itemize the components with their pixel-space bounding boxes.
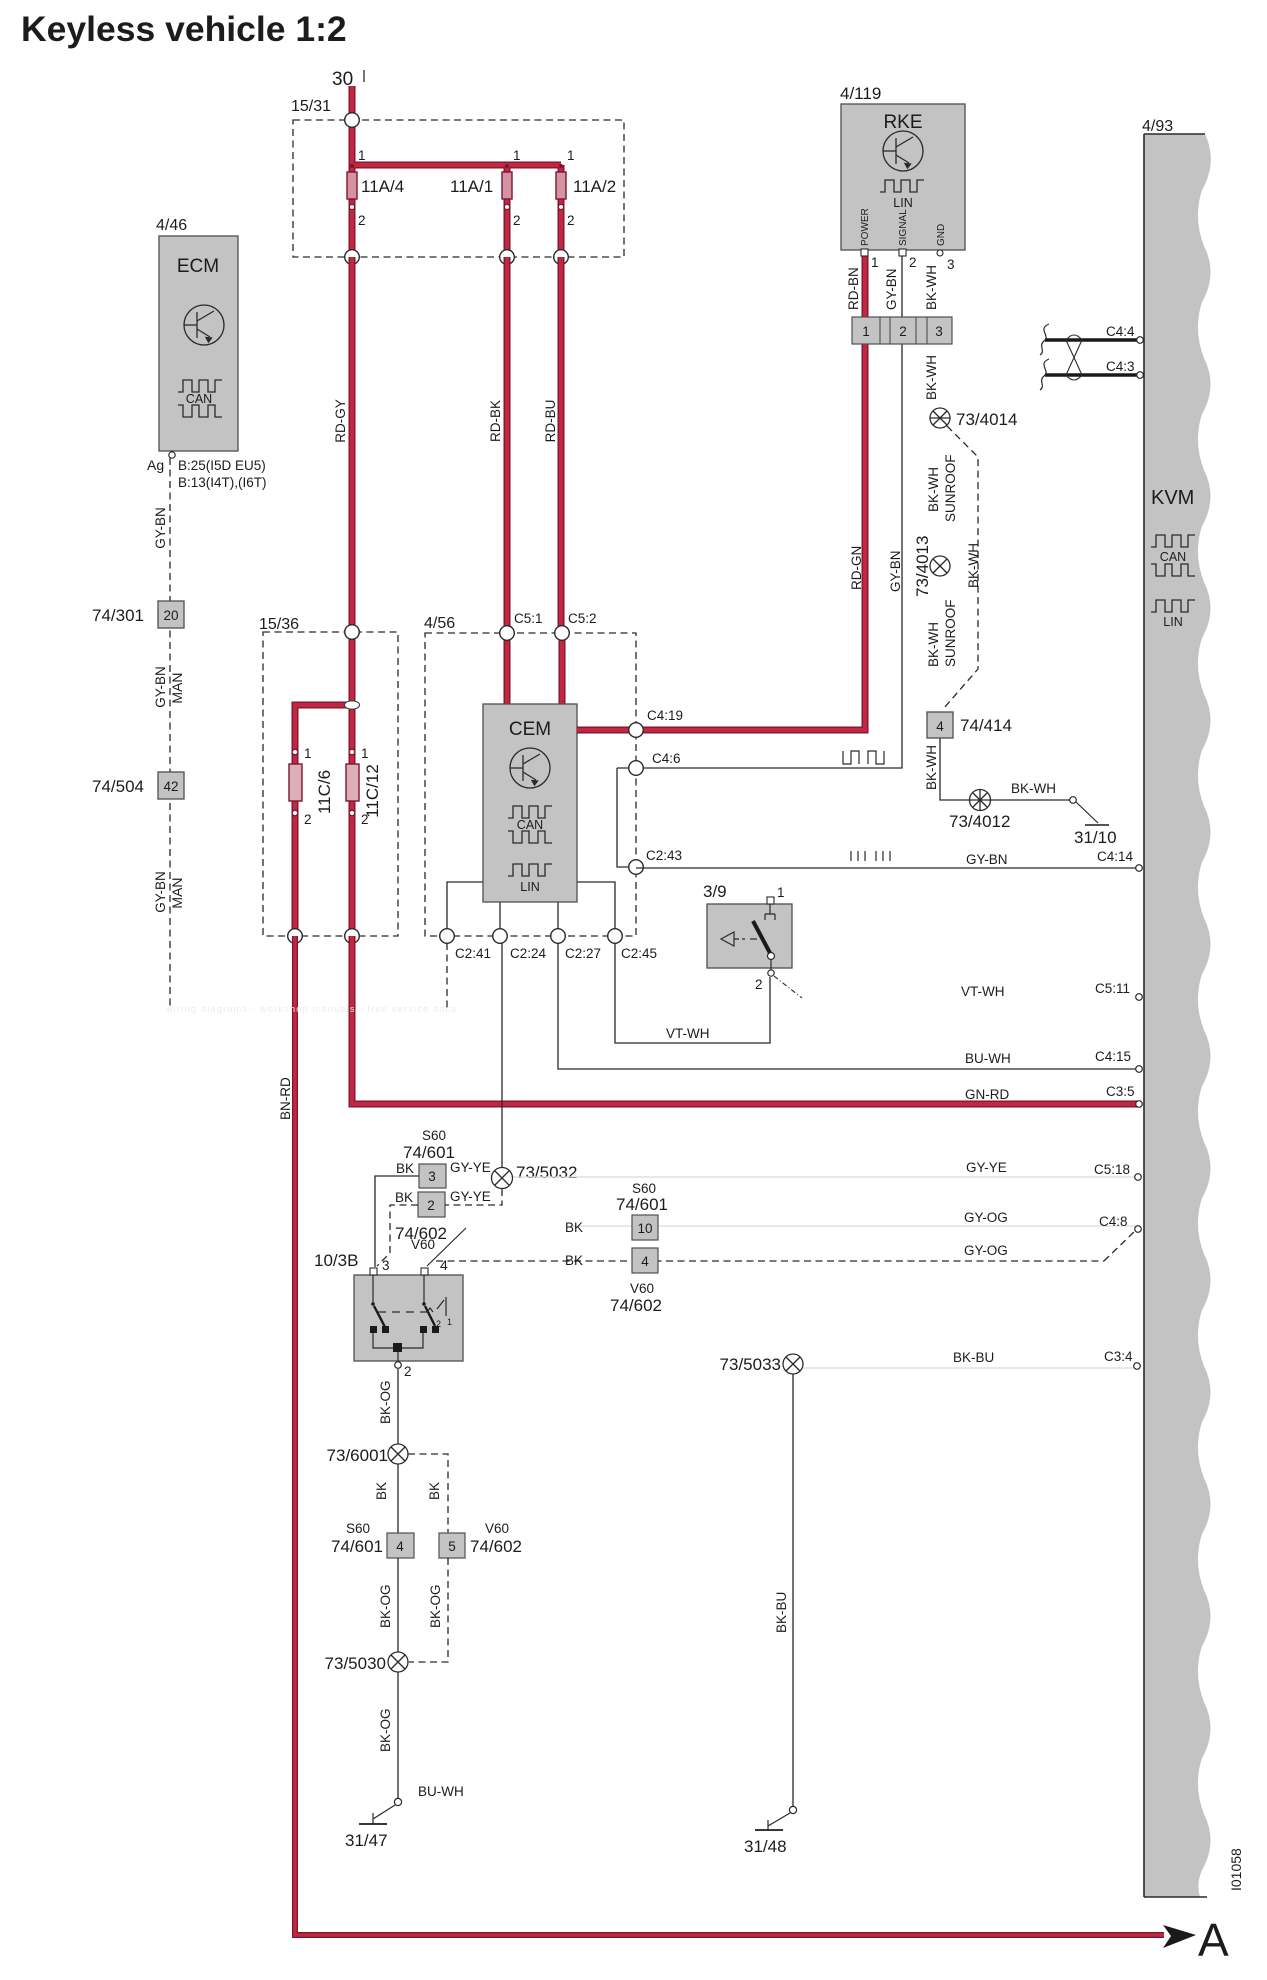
wire red bus inside 15/31 — [352, 120, 561, 172]
wire BK-BU lamp 73/5033 to ground — [792, 1374, 794, 1806]
svg-text:BK-OG: BK-OG — [378, 1708, 393, 1752]
svg-text:4/93: 4/93 — [1142, 118, 1173, 135]
wire RD feed from 30 — [349, 86, 356, 122]
svg-text:S60: S60 — [632, 1181, 656, 1196]
svg-text:C4:14: C4:14 — [1097, 849, 1134, 864]
wire CEM internal to C2:41 — [447, 882, 483, 936]
svg-text:2: 2 — [909, 255, 917, 270]
fuse 11C/12 — [346, 749, 359, 816]
node 15/31 bottom out RD-BK — [500, 250, 515, 265]
lamp 73/6001 — [388, 1444, 408, 1464]
svg-text:C2:27: C2:27 — [565, 946, 601, 961]
svg-text:4/119: 4/119 — [840, 84, 881, 103]
CEM CAN symbol — [508, 806, 552, 843]
connector S60 74/601 pin 4 — [331, 1521, 414, 1558]
node C2:43 — [629, 848, 682, 874]
twist symbol — [1066, 335, 1082, 380]
svg-text:C2:45: C2:45 — [621, 946, 657, 961]
fuse holder 15/31 dashed box — [293, 120, 624, 257]
wire dashed GY-YE lamp to pin 2 — [445, 1189, 502, 1205]
svg-text:C5:2: C5:2 — [568, 611, 597, 626]
svg-text:V60: V60 — [411, 1237, 435, 1252]
svg-text:1: 1 — [513, 148, 521, 163]
pin labels fuse 11A/4 — [358, 148, 404, 228]
linkage line at pin 4 — [427, 1228, 466, 1266]
pin C4:8 — [964, 1210, 1141, 1232]
svg-text:4/56: 4/56 — [424, 615, 455, 632]
svg-text:1: 1 — [862, 324, 870, 339]
svg-text:31/10: 31/10 — [1074, 828, 1117, 847]
RKE pin 3 — [937, 250, 955, 272]
wire link C4:6 to C2:43 — [617, 768, 636, 867]
svg-text:1: 1 — [871, 255, 879, 270]
svg-text:GN-RD: GN-RD — [965, 1087, 1009, 1102]
svg-text:20: 20 — [163, 608, 178, 623]
RKE pin 1 — [861, 249, 879, 270]
svg-text:11C/6: 11C/6 — [315, 770, 334, 814]
svg-text:3: 3 — [947, 257, 955, 272]
svg-text:GY-YE: GY-YE — [450, 1189, 491, 1204]
svg-text:10/3B: 10/3B — [314, 1251, 358, 1270]
svg-text:BU-WH: BU-WH — [965, 1051, 1011, 1066]
wire dashed BK pin 2 to 10/3B pin 3 — [377, 1205, 418, 1266]
svg-text:1: 1 — [567, 148, 575, 163]
svg-text:BK-WH: BK-WH — [966, 543, 981, 588]
connector 74/301 pin 20 — [158, 601, 184, 628]
pin C4:3 — [1106, 359, 1143, 378]
svg-text:BK-WH: BK-WH — [924, 355, 939, 400]
svg-text:11A/1: 11A/1 — [450, 177, 493, 196]
svg-text:74/602: 74/602 — [470, 1537, 522, 1556]
svg-text:4: 4 — [641, 1254, 649, 1269]
switch 10/3B right blade — [422, 1302, 435, 1326]
pin labels fuse 11A/1 — [450, 148, 521, 228]
KVM bar top border — [1144, 133, 1205, 135]
svg-text:RD-GY: RD-GY — [333, 399, 348, 443]
wire BN-RD loop to arrow A — [295, 936, 1164, 1935]
svg-text:I01058: I01058 — [1228, 1848, 1244, 1891]
switch 10/3B box — [354, 1275, 463, 1361]
svg-text:74/414: 74/414 — [960, 716, 1012, 735]
svg-text:GY-BN: GY-BN — [888, 550, 903, 592]
faint wire BK-BU to C3:4 — [803, 1367, 1134, 1369]
svg-text:GY-YE: GY-YE — [450, 1160, 491, 1175]
svg-text:73/4013: 73/4013 — [913, 536, 932, 597]
svg-text:31/48: 31/48 — [744, 1837, 787, 1856]
node C5:1 — [500, 611, 543, 640]
wire CEM to C2:24 — [499, 902, 501, 936]
svg-text:2: 2 — [513, 213, 521, 228]
svg-text:C4:19: C4:19 — [647, 708, 683, 723]
label BK-WH SUNROOF lower — [926, 600, 958, 668]
svg-text:GY-BN: GY-BN — [153, 666, 168, 708]
wire RD-GY vertical — [349, 257, 356, 632]
svg-text:C4:3: C4:3 — [1106, 359, 1135, 374]
node 15/31 bottom out RD-BU — [554, 250, 569, 265]
svg-text:73/5032: 73/5032 — [516, 1163, 577, 1182]
wire RD inside 15/36 left branch — [295, 705, 352, 936]
svg-text:Ag: Ag — [147, 457, 164, 473]
labels V60 74/602 right group — [610, 1281, 662, 1315]
svg-text:4: 4 — [396, 1539, 404, 1554]
faint wire GY-YE to C5:18 — [513, 1176, 1136, 1178]
svg-text:BK: BK — [565, 1220, 583, 1235]
lamp 73/5030 — [388, 1652, 408, 1672]
wire red below fuses to bottom nodes — [352, 199, 561, 257]
svg-text:C5:18: C5:18 — [1094, 1162, 1130, 1177]
svg-text:2: 2 — [567, 213, 575, 228]
svg-text:11A/4: 11A/4 — [361, 177, 404, 196]
svg-text:73/5030: 73/5030 — [325, 1654, 386, 1673]
svg-text:LIN: LIN — [1163, 615, 1182, 629]
svg-text:ECM: ECM — [177, 256, 219, 277]
svg-text:V60: V60 — [630, 1281, 654, 1296]
pin C3:5 — [965, 1084, 1142, 1107]
pin C4:14 — [1097, 849, 1142, 871]
svg-text:S60: S60 — [422, 1128, 446, 1143]
wire BK-WH lamp to ground stub — [991, 799, 1071, 801]
svg-text:BU-WH: BU-WH — [418, 1784, 464, 1799]
node C2:24 — [493, 929, 547, 961]
svg-text:11A/2: 11A/2 — [573, 177, 616, 196]
connector S60 74/601 labels — [403, 1128, 455, 1162]
label GY-BN MAN mid — [153, 666, 185, 708]
wire GY-BN to KVM C4:14 — [636, 867, 1139, 869]
svg-text:15/31: 15/31 — [291, 98, 331, 115]
fuse 11A/4 — [347, 164, 357, 210]
switch 10/3B left blade — [371, 1302, 385, 1327]
connector 74/601 pin 3 — [419, 1164, 446, 1188]
svg-text:BK-OG: BK-OG — [428, 1584, 443, 1628]
svg-text:BN-RD: BN-RD — [278, 1077, 293, 1120]
svg-text:73/5033: 73/5033 — [720, 1355, 781, 1374]
wire RD from CEM to C4:19 and up to RKE — [577, 254, 865, 730]
svg-text:74/602: 74/602 — [610, 1296, 662, 1315]
svg-text:GY-BN: GY-BN — [153, 507, 168, 549]
switch 10/3B pin 2 — [395, 1362, 412, 1379]
svg-text:C4:8: C4:8 — [1099, 1214, 1128, 1229]
svg-text:Keyless vehicle 1:2: Keyless vehicle 1:2 — [21, 9, 347, 49]
lamp 73/5032 — [492, 1168, 513, 1189]
lamp 73/4014 — [930, 408, 950, 428]
svg-text:BK-OG: BK-OG — [378, 1380, 393, 1424]
node C4:19 — [629, 708, 683, 737]
wire RD inside 15/36 right branch — [349, 632, 356, 936]
switch 3/9 blade pivot circle — [768, 953, 775, 960]
svg-text:RD-GN: RD-GN — [849, 546, 864, 590]
connector V60 74/602 pin 5 — [439, 1521, 522, 1558]
wire RD-BU vertical — [558, 257, 565, 633]
svg-text:1: 1 — [777, 885, 785, 900]
switch 10/3B common bus — [373, 1333, 423, 1361]
KVM bar bottom border — [1144, 1896, 1207, 1898]
switch 10/3B right contact wire — [423, 1275, 425, 1303]
break squiggle top — [1040, 324, 1049, 355]
svg-text:1: 1 — [361, 746, 369, 761]
node 15/36 top in — [345, 625, 360, 640]
switch 3/9 fixed contact — [765, 904, 775, 920]
svg-text:4: 4 — [936, 719, 944, 734]
svg-text:2: 2 — [304, 812, 312, 827]
svg-text:CAN: CAN — [186, 392, 212, 406]
svg-text:RD-BU: RD-BU — [543, 400, 558, 443]
ground lead 31/10 — [1076, 802, 1098, 823]
svg-text:3: 3 — [382, 1258, 390, 1273]
wire RD-BU into CEM — [559, 633, 566, 706]
switch 10/3B position labels 2 1 — [436, 1317, 452, 1329]
switch 10/3B contacts — [370, 1326, 439, 1333]
svg-text:RD-BN: RD-BN — [846, 267, 861, 310]
label BK-WH SUNROOF upper — [926, 455, 958, 523]
svg-text:CEM: CEM — [509, 719, 551, 740]
switch 3/9 blade — [753, 921, 770, 953]
KVM CAN symbol — [1151, 535, 1195, 576]
RKE control unit box — [841, 104, 965, 250]
node feed into 15/31 — [345, 113, 360, 128]
svg-text:C3:5: C3:5 — [1106, 1084, 1135, 1099]
wire GN-RD from 15/36 to KVM C3:5 — [352, 936, 1139, 1104]
svg-text:VT-WH: VT-WH — [961, 984, 1005, 999]
CEM control unit box — [483, 704, 577, 902]
svg-text:2: 2 — [427, 1198, 435, 1213]
svg-text:74/504: 74/504 — [92, 777, 144, 796]
connector 74/414 pin 4 — [927, 712, 953, 738]
wire dashed sunroof bypass — [944, 426, 978, 708]
switch 3/9 pin 2 — [755, 959, 774, 992]
wire RD-BK vertical — [504, 257, 511, 633]
faint wire GY-OG to C4:8 — [570, 1225, 1136, 1227]
svg-text:wiring diagrams - workshop man: wiring diagrams - workshop manuals - fre… — [165, 1004, 456, 1014]
node C2:27 — [551, 929, 601, 961]
svg-text:C3:4: C3:4 — [1104, 1349, 1133, 1364]
node 15/36 bottom right GN-RD — [345, 929, 360, 944]
fuse 11A/1 — [502, 164, 512, 210]
svg-text:15/36: 15/36 — [259, 616, 299, 633]
wire RD-BK into CEM — [504, 633, 511, 706]
KVM LIN symbol — [1151, 600, 1195, 612]
svg-text:C5:1: C5:1 — [514, 611, 543, 626]
switch 10/3B detent symbol — [427, 1297, 446, 1316]
svg-text:BK: BK — [565, 1253, 583, 1268]
wire VT-WH from C2:45 to 3/9 pin 2 — [615, 943, 770, 1043]
svg-text:3: 3 — [428, 1169, 436, 1184]
svg-text:C4:4: C4:4 — [1106, 324, 1135, 339]
wire BK-WH from 74/414 to lamp 73/4012 — [940, 738, 970, 800]
switch 3/9 pin 1 — [767, 885, 785, 904]
ECM transistor symbol — [184, 305, 224, 345]
svg-text:SUNROOF: SUNROOF — [943, 600, 958, 668]
pin C5:11 (VT-WH hidden wire) — [961, 981, 1142, 1000]
svg-text:BK: BK — [374, 1482, 389, 1500]
svg-text:74/601: 74/601 — [331, 1537, 383, 1556]
svg-text:73/4012: 73/4012 — [949, 812, 1010, 831]
CEM LIN symbol — [508, 864, 552, 876]
svg-text:C2:24: C2:24 — [510, 946, 547, 961]
fuse 11A/2 — [556, 164, 566, 210]
lamp 73/5033 — [783, 1354, 803, 1374]
svg-text:GY-OG: GY-OG — [964, 1243, 1008, 1258]
wire BK from C2:24 down to lamp 73/5032 — [501, 943, 503, 1168]
relay box 15/36 dashed box — [263, 632, 398, 936]
svg-text:74/601: 74/601 — [616, 1195, 668, 1214]
label GY-BN MAN lower — [153, 871, 185, 913]
svg-text:2: 2 — [404, 1364, 412, 1379]
svg-text:4/46: 4/46 — [156, 217, 187, 234]
pin circle before ground 31/10 — [1070, 797, 1077, 804]
lamp 73/4013 — [930, 556, 950, 576]
svg-text:1: 1 — [358, 148, 366, 163]
svg-text:GY-BN: GY-BN — [966, 852, 1008, 867]
switch 10/3B coupling dashed — [378, 1311, 427, 1313]
svg-text:LIN: LIN — [520, 880, 539, 894]
svg-text:GY-YE: GY-YE — [966, 1160, 1007, 1175]
svg-text:B:25(I5D EU5): B:25(I5D EU5) — [178, 458, 266, 473]
pin C5:18 — [966, 1160, 1141, 1180]
svg-text:1: 1 — [447, 1317, 452, 1327]
wire CEM to C2:27 — [557, 902, 559, 936]
switch 3/9 linkage dash-dot — [774, 976, 802, 998]
wire BK-OG pin 2 to lamp 73/6001 — [397, 1369, 399, 1444]
svg-text:73/6001: 73/6001 — [327, 1446, 388, 1465]
pin labels fuse 11C/6 — [304, 746, 334, 827]
RKE transistor symbol — [883, 131, 923, 171]
svg-text:11C/12: 11C/12 — [363, 764, 382, 818]
CAN twisted pair wire C4:3 — [1045, 373, 1138, 376]
CEM assembly 4/56 dashed box — [425, 633, 636, 936]
wire CEM to C2:45 — [577, 882, 615, 936]
pin C3:4 — [953, 1349, 1140, 1369]
switch 10/3B common junction — [393, 1343, 402, 1352]
RKE pin 2 — [899, 249, 917, 270]
svg-text:BK-WH: BK-WH — [924, 745, 939, 790]
svg-text:RD-BK: RD-BK — [488, 400, 503, 442]
switch 3/9 actuation arrow — [721, 932, 757, 946]
pin C4:4 — [1106, 324, 1143, 343]
wire BK lamp to connector 4 — [397, 1464, 399, 1533]
svg-text:C4:6: C4:6 — [652, 751, 681, 766]
svg-text:73/4014: 73/4014 — [956, 410, 1017, 429]
connector 74/601 pin 10 — [632, 1215, 658, 1240]
svg-text:74/301: 74/301 — [92, 606, 144, 625]
connector 74/601 pin 2 — [418, 1192, 445, 1217]
node C2:41 — [440, 929, 491, 961]
wire dashed from lamp 73/6001 to V60 branch — [408, 1454, 448, 1533]
ECM pin Ag — [147, 452, 175, 473]
svg-text:GY-BN: GY-BN — [884, 268, 899, 310]
svg-text:BK-BU: BK-BU — [953, 1350, 994, 1365]
break squiggle bottom — [1040, 359, 1049, 390]
svg-text:GY-OG: GY-OG — [964, 1210, 1008, 1225]
arrow A to next sheet — [1163, 1914, 1229, 1966]
svg-text:MAN: MAN — [169, 877, 185, 908]
svg-text:V60: V60 — [485, 1521, 509, 1536]
fuse 11C/6 — [289, 749, 302, 816]
wire BU-WH from C2:27 to KVM C4:15 — [558, 943, 1139, 1069]
svg-text:POWER: POWER — [860, 208, 871, 246]
svg-text:5: 5 — [448, 1539, 456, 1554]
wire dashed BK-OG connector 5 to lamp 73/5030 — [409, 1558, 448, 1662]
svg-text:CAN: CAN — [517, 818, 543, 832]
svg-text:B:13(I4T),(I6T): B:13(I4T),(I6T) — [178, 475, 267, 490]
KVM control unit bar — [1144, 134, 1211, 1897]
svg-text:CAN: CAN — [1160, 550, 1186, 564]
ground 31/48 — [744, 1813, 790, 1856]
svg-text:1: 1 — [304, 746, 312, 761]
svg-text:LIN: LIN — [893, 196, 912, 210]
svg-text:SIGNAL: SIGNAL — [898, 209, 909, 246]
LIN tick marks on GY-BN wire — [851, 851, 890, 861]
svg-text:BK-WH: BK-WH — [926, 467, 941, 512]
svg-text:MAN: MAN — [169, 672, 185, 703]
ground pin circle 31/47 — [394, 1798, 401, 1805]
ECM CAN symbol — [178, 380, 222, 417]
connector strip 1 2 3 — [852, 317, 952, 344]
svg-text:2: 2 — [358, 213, 366, 228]
svg-text:BK-OG: BK-OG — [378, 1584, 393, 1628]
switch 10/3B internal left contact wire — [372, 1275, 374, 1303]
svg-text:C5:11: C5:11 — [1095, 981, 1130, 996]
svg-text:C4:15: C4:15 — [1095, 1049, 1131, 1064]
svg-text:42: 42 — [163, 779, 178, 794]
svg-text:74/601: 74/601 — [403, 1143, 455, 1162]
node 15/36 bottom left BN-RD — [288, 929, 303, 944]
connector 74/602 pin 4 — [632, 1248, 658, 1273]
svg-text:GY-BN: GY-BN — [153, 871, 168, 913]
svg-text:BK-WH: BK-WH — [924, 265, 939, 310]
CEM transistor symbol — [510, 748, 550, 788]
connector 74/504 pin 42 — [158, 772, 184, 799]
RKE LIN symbol — [880, 180, 924, 192]
wire BK-OG connector 4 to lamp 73/5030 — [397, 1558, 399, 1652]
svg-text:BK-WH: BK-WH — [926, 622, 941, 667]
wire GY-BN dashed from ECM — [169, 458, 171, 1010]
node 15/31 bottom out RD-GY — [345, 250, 360, 265]
connector S60 74/601 right labels — [616, 1181, 668, 1214]
svg-text:31/47: 31/47 — [345, 1831, 388, 1850]
svg-text:3/9: 3/9 — [703, 882, 727, 901]
svg-text:KVM: KVM — [1151, 487, 1194, 509]
node C4:6 — [629, 751, 681, 775]
pin labels fuse 11A/2 — [567, 148, 616, 228]
svg-text:2: 2 — [899, 324, 907, 339]
svg-text:2: 2 — [755, 977, 763, 992]
wire BK-OG lamp to ground circle — [397, 1672, 399, 1798]
switch 10/3B pin 4 — [421, 1257, 448, 1275]
pin labels fuse 11C/12 — [361, 746, 382, 827]
KVM bar left border — [1143, 134, 1145, 1897]
svg-text:SUNROOF: SUNROOF — [943, 455, 958, 523]
svg-text:BK: BK — [395, 1190, 413, 1205]
ground 31/10 label with overline — [1074, 825, 1117, 847]
junction splice on RD wire — [345, 701, 360, 709]
svg-text:S60: S60 — [346, 1521, 370, 1536]
node 30 supply label — [332, 69, 364, 90]
svg-text:A: A — [1198, 1914, 1229, 1966]
svg-text:BK: BK — [427, 1482, 442, 1500]
LIN pulse mark on C4:6 wire — [843, 751, 884, 764]
switch 3/9 box — [707, 904, 792, 968]
node C2:45 — [608, 929, 657, 961]
svg-text:C2:43: C2:43 — [646, 848, 682, 863]
wire dashed below C2:41 — [446, 943, 448, 1009]
wire dashed BK through V60 74/602 pin 4 to C4:8 — [436, 1230, 1136, 1261]
ECM control unit box — [159, 236, 238, 451]
switch 10/3B pin 3 — [370, 1258, 390, 1275]
wire GY-BN from RKE pin2 to C4:6 — [617, 254, 902, 768]
labels 74/602 V60 left group — [395, 1224, 447, 1252]
svg-text:BK: BK — [396, 1161, 414, 1176]
svg-text:4: 4 — [440, 1257, 448, 1273]
